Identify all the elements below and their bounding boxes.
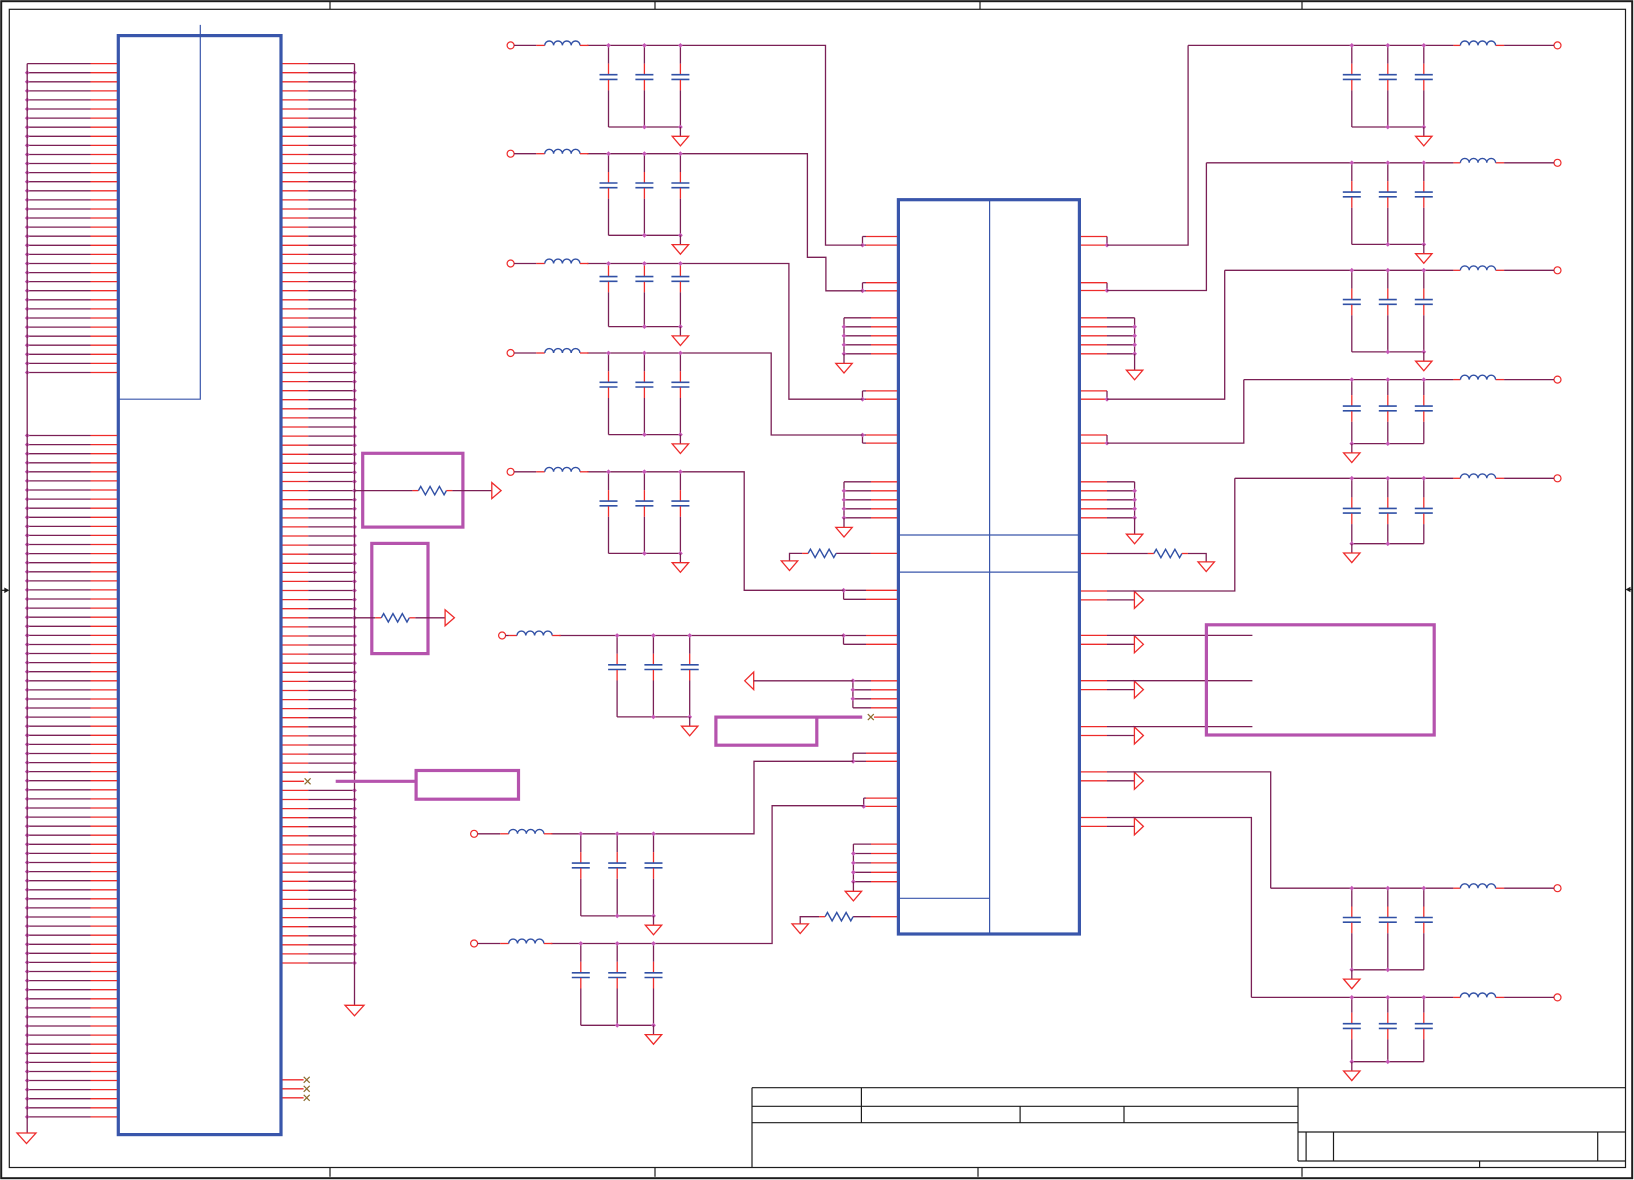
inductor T1 bbox=[514, 41, 588, 45]
junction dots C10 bottom bbox=[1385, 242, 1426, 247]
IC U1 right pin group G2R bbox=[1081, 482, 1137, 520]
wire C2 bottom bus bbox=[609, 234, 681, 236]
capacitor C9b bbox=[1379, 45, 1397, 127]
capacitor C2a bbox=[600, 154, 618, 236]
net X3 stub (thick pink) bbox=[336, 780, 416, 783]
junction dots C6 top bbox=[615, 633, 692, 638]
wire C10 bottom bus bbox=[1352, 243, 1424, 245]
ground C13 bbox=[1344, 544, 1360, 563]
ground C15 bbox=[1344, 1062, 1360, 1081]
title block left section bbox=[752, 1088, 1626, 1168]
junction dots C5 bottom bbox=[642, 551, 683, 556]
ground at R3 bbox=[781, 561, 797, 571]
border zone tick top 2 bbox=[654, 1, 656, 9]
net A5 upper to R6 row bbox=[1107, 772, 1271, 888]
border middle mark left bbox=[1, 588, 9, 594]
capacitor C5c bbox=[671, 472, 689, 554]
net L8 row bbox=[551, 806, 864, 944]
IC U1 right pin pair P1R bbox=[1081, 237, 1109, 248]
connector J1 left pins group B wires bbox=[27, 436, 90, 1117]
wire C11 bottom bus bbox=[1352, 351, 1424, 353]
inductor T3 bbox=[514, 259, 588, 263]
ground C6 bbox=[682, 717, 698, 736]
wire C15 bottom bus bbox=[1352, 1061, 1424, 1063]
signal arrow out of X1 bbox=[492, 483, 501, 499]
capacitor C13a bbox=[1343, 478, 1361, 543]
capacitor C14a bbox=[1343, 888, 1361, 970]
capacitor C13c bbox=[1415, 478, 1433, 543]
wire C7 bottom bus bbox=[581, 915, 654, 917]
net IC P5R to R4 bbox=[1107, 380, 1244, 444]
IC U1 left pin pair P8 bbox=[851, 753, 897, 764]
IC U1 right pin pair P4R bbox=[1081, 391, 1109, 402]
capacitor C1a bbox=[600, 45, 618, 127]
wire X1 resistor to arrow bbox=[446, 490, 491, 492]
junction dots right bus bbox=[352, 70, 357, 965]
capacitor C6c bbox=[681, 636, 699, 717]
capacitor C10a bbox=[1343, 163, 1361, 245]
IC U1 right pin group G1R bbox=[1081, 318, 1137, 356]
capacitor C10b bbox=[1379, 163, 1397, 245]
signal arrow A3 bbox=[1134, 681, 1143, 698]
wire X2 resistor to arrow bbox=[409, 617, 445, 619]
capacitor C3a bbox=[600, 264, 618, 327]
IC U1 right arrow pair A4 bbox=[1081, 727, 1134, 736]
ground at R4 bbox=[1198, 562, 1214, 572]
ground IC left group G4 bbox=[845, 882, 861, 901]
capacitor C2c bbox=[671, 154, 689, 236]
capacitor C7a bbox=[572, 834, 590, 916]
component box X5 (pink) bbox=[1206, 625, 1434, 735]
ground C9 bbox=[1416, 127, 1432, 146]
ground left bus bbox=[17, 1133, 36, 1144]
inductor TR3 bbox=[1453, 266, 1554, 270]
junction dots C15 bottom bbox=[1349, 1059, 1390, 1064]
signal arrow A6 bbox=[1134, 818, 1143, 835]
IC U1 left pin pair P4 bbox=[860, 391, 897, 402]
title block right section bbox=[1298, 1088, 1626, 1168]
ground C10 bbox=[1416, 244, 1432, 263]
capacitor C8a bbox=[572, 944, 590, 1026]
capacitor C14b bbox=[1379, 888, 1397, 970]
junction dots C9 bottom bbox=[1385, 125, 1426, 130]
capacitor C6b bbox=[644, 636, 662, 717]
inductor T4 bbox=[514, 349, 588, 353]
junction dots C4 bottom bbox=[642, 432, 683, 437]
signal arrow A2 bbox=[1134, 636, 1143, 653]
component box X3 (pink) bbox=[416, 771, 518, 800]
net R6 row bbox=[1271, 887, 1454, 889]
border zone tick bottom 3 bbox=[977, 1168, 979, 1177]
ground IC left group G1 bbox=[836, 354, 852, 373]
junction dots C14 top bbox=[1349, 886, 1426, 891]
junction dots left bus group A bbox=[25, 70, 30, 375]
wire resistor R4 to ground bbox=[1182, 554, 1206, 562]
capacitor C12a bbox=[1343, 380, 1361, 444]
junction dots left bus group B bbox=[25, 433, 30, 1119]
ground C1 bbox=[672, 127, 688, 146]
ground C12 bbox=[1344, 444, 1360, 463]
wire right ground bus bbox=[354, 64, 356, 1006]
connector J1 internal partition bbox=[118, 25, 200, 399]
junction dots C8 top bbox=[578, 941, 656, 946]
no-connect X on J1 right row bbox=[305, 778, 311, 784]
capacitor C13b bbox=[1379, 478, 1397, 543]
terminal TR2 bbox=[1554, 159, 1561, 166]
ground C7 bbox=[645, 916, 661, 935]
terminal T7 bbox=[471, 830, 478, 837]
terminal T8 bbox=[471, 940, 478, 947]
capacitor C3b bbox=[635, 264, 653, 327]
IC U1 left pin group G3 bbox=[851, 678, 898, 707]
junction dots C12 bottom bbox=[1349, 441, 1390, 446]
terminal TR5 bbox=[1554, 475, 1561, 482]
net R7 row bbox=[1251, 996, 1453, 998]
wire C12 bottom bus bbox=[1352, 443, 1424, 445]
junction dots C4 top bbox=[606, 351, 683, 356]
capacitor C7b bbox=[608, 834, 626, 916]
capacitor C15b bbox=[1379, 997, 1397, 1061]
junction dots C3 top bbox=[606, 261, 683, 266]
capacitor C10c bbox=[1415, 163, 1433, 245]
wire left ground bus bbox=[26, 64, 28, 1133]
IC U1 left pin pair P9 bbox=[861, 798, 897, 809]
terminal T4 bbox=[507, 350, 514, 357]
net L1 row bbox=[587, 45, 863, 245]
ground IC right group G1R bbox=[1126, 354, 1142, 380]
capacitor C5b bbox=[635, 472, 653, 554]
net L6 row bbox=[559, 635, 843, 637]
net L5 row bbox=[587, 472, 844, 591]
capacitor C6a bbox=[608, 636, 626, 717]
connector J1 right pins red stubs bbox=[283, 64, 309, 963]
capacitor C4c bbox=[671, 353, 689, 435]
wire C1 bottom bus bbox=[609, 126, 681, 128]
wire G3 to left arrow bbox=[754, 680, 853, 682]
ground IC left group G2 bbox=[836, 518, 852, 537]
terminal TR1 bbox=[1554, 42, 1561, 49]
inductor TR6 bbox=[1453, 884, 1554, 888]
net A6 upper to R7 row bbox=[1107, 818, 1251, 998]
net R3 row bbox=[1225, 269, 1454, 271]
IC U1 left pin group G2 bbox=[842, 482, 897, 520]
IC U1 internal divider h2 bbox=[898, 571, 1079, 573]
junction dots C2 top bbox=[606, 151, 683, 156]
junction dots C12 top bbox=[1349, 377, 1426, 382]
wire IC left pin to resistor R5 bbox=[853, 916, 897, 918]
junction dots C7 top bbox=[578, 831, 656, 836]
IC U1 left pin group G1 bbox=[842, 318, 897, 356]
IC U1 internal divider h1 bbox=[898, 534, 1079, 536]
ground C5 bbox=[672, 553, 688, 572]
IC U1 left pin pair P2 bbox=[860, 283, 897, 294]
junction dots C15 top bbox=[1349, 995, 1426, 1000]
connector J1 body bbox=[118, 36, 281, 1135]
ground IC right group G2R bbox=[1126, 518, 1142, 544]
wire J1 row to X2 resistor bbox=[355, 617, 382, 619]
junction dots C11 top bbox=[1349, 268, 1426, 273]
IC U1 left pin pair P6 bbox=[841, 588, 897, 599]
terminal TR4 bbox=[1554, 376, 1561, 383]
capacitor C5a bbox=[600, 472, 618, 554]
terminal T2 bbox=[507, 150, 514, 157]
ground C14 bbox=[1344, 970, 1360, 989]
IC U1 right arrow pair A5 bbox=[1081, 772, 1134, 781]
resistor R3 bbox=[808, 549, 836, 557]
wire C6 bottom bus bbox=[617, 716, 690, 718]
border zone tick top 3 bbox=[979, 1, 981, 9]
wire C5 bottom bus bbox=[609, 552, 681, 554]
capacitor C2b bbox=[635, 154, 653, 236]
IC U1 right arrow pair A2 bbox=[1081, 635, 1134, 644]
signal arrow A4 bbox=[1134, 727, 1143, 744]
net IC P4R to R3 bbox=[1107, 270, 1225, 399]
capacitor C1b bbox=[635, 45, 653, 127]
net R2 row bbox=[1206, 162, 1453, 164]
junction dots C13 top bbox=[1349, 476, 1426, 481]
capacitor C15c bbox=[1415, 997, 1433, 1061]
junction dots C8 bottom bbox=[615, 1023, 656, 1028]
junction dots C1 top bbox=[606, 43, 683, 48]
signal arrow A1 bbox=[1134, 591, 1143, 608]
IC U1 right arrow pair A1 bbox=[1081, 591, 1134, 600]
junction dots C14 bottom bbox=[1349, 967, 1390, 972]
wire resistor R5 to ground bbox=[800, 917, 825, 924]
IC U1 left pin group G4 bbox=[851, 844, 897, 884]
ground C2 bbox=[672, 235, 688, 254]
junction dots C13 bottom bbox=[1349, 541, 1390, 546]
ground C3 bbox=[672, 327, 688, 346]
ground C8 bbox=[645, 1025, 661, 1044]
signal arrow left of G3 bbox=[745, 672, 754, 690]
ground at R5 bbox=[792, 924, 808, 934]
net A4 upper into box X5 bbox=[1107, 726, 1252, 728]
terminal T5 bbox=[507, 468, 514, 475]
IC U1 internal divider h3 bbox=[898, 897, 989, 899]
terminal TR6 bbox=[1554, 885, 1561, 892]
junction dots C2 bottom bbox=[642, 233, 683, 238]
IC U1 body bbox=[898, 200, 1079, 934]
capacitor C4a bbox=[600, 353, 618, 435]
junction dots C1 bottom bbox=[642, 125, 683, 130]
capacitor C12b bbox=[1379, 380, 1397, 444]
junction dots C11 bottom bbox=[1385, 350, 1426, 355]
net R1 row bbox=[1188, 44, 1453, 46]
IC U1 right arrow pair A3 bbox=[1081, 681, 1134, 690]
capacitor C14c bbox=[1415, 888, 1433, 970]
junction dots C6 bottom bbox=[651, 715, 692, 720]
net L3 row bbox=[587, 264, 863, 400]
net R5 row bbox=[1235, 477, 1454, 479]
component box X4 (pink) bbox=[716, 717, 817, 745]
wire C4 bottom bus bbox=[609, 434, 681, 436]
capacitor C11a bbox=[1343, 270, 1361, 352]
capacitor C8c bbox=[645, 944, 663, 1026]
wire IC right pin to resistor R4 bbox=[1081, 553, 1154, 555]
resistor R1 in X1 bbox=[418, 486, 446, 494]
no-connect pins J1 bottom right bbox=[283, 1077, 310, 1101]
inductor T2 bbox=[514, 149, 588, 153]
inductor T6 bbox=[506, 631, 561, 635]
signal arrow out of X2 bbox=[445, 610, 454, 626]
capacitor C1c bbox=[671, 45, 689, 127]
IC U1 left pin pair P1 bbox=[860, 237, 897, 248]
net L2 row bbox=[587, 154, 863, 291]
junction dots C5 top bbox=[606, 469, 683, 474]
inductor T7 bbox=[478, 829, 553, 833]
inductor T8 bbox=[478, 939, 553, 943]
capacitor C9a bbox=[1343, 45, 1361, 127]
resistor R5 bbox=[825, 913, 853, 921]
net A3 upper into box X5 bbox=[1107, 680, 1252, 682]
terminal TR3 bbox=[1554, 267, 1561, 274]
ground C11 bbox=[1416, 352, 1432, 371]
ground right bus bbox=[345, 1005, 364, 1016]
resistor R2 in X2 bbox=[381, 614, 409, 622]
wire C9 bottom bus bbox=[1352, 126, 1424, 128]
wire IC left pin to resistor R3 bbox=[836, 552, 897, 554]
component box X1 (pink) bbox=[363, 453, 463, 527]
wire J1 row to X1 resistor bbox=[355, 490, 419, 492]
junction dots C3 bottom bbox=[642, 324, 683, 329]
wire C13 bottom bus bbox=[1352, 543, 1424, 545]
ground C4 bbox=[672, 435, 688, 454]
wire C8 bottom bus bbox=[581, 1024, 654, 1026]
capacitor C11b bbox=[1379, 270, 1397, 352]
inductor T5 bbox=[514, 467, 588, 471]
inductor TR7 bbox=[1453, 993, 1554, 997]
capacitor C8b bbox=[608, 944, 626, 1026]
wire resistor R3 to ground bbox=[790, 553, 809, 561]
IC U1 left pin pair P7 bbox=[841, 633, 897, 644]
net R4 row bbox=[1244, 379, 1454, 381]
connector J1 left pins group A wires bbox=[27, 64, 90, 373]
wire C14 bottom bus bbox=[1352, 969, 1424, 971]
signal arrow A5 bbox=[1134, 772, 1143, 789]
terminal T3 bbox=[507, 260, 514, 267]
border zone tick top 4 bbox=[1301, 1, 1303, 9]
IC U1 internal divider vertical bbox=[989, 200, 991, 934]
IC U1 left pin pair P5 bbox=[860, 433, 897, 444]
net IC P2R to R2 bbox=[1107, 163, 1206, 291]
inductor TR1 bbox=[1453, 41, 1554, 45]
IC U1 right pin pair P2R bbox=[1081, 283, 1109, 293]
border middle mark right bbox=[1626, 587, 1633, 593]
border zone tick bottom 4 bbox=[1301, 1168, 1303, 1177]
terminal TR7 bbox=[1554, 994, 1561, 1001]
terminal T1 bbox=[507, 42, 514, 49]
junction dots C9 top bbox=[1349, 43, 1426, 48]
junction dots C10 top bbox=[1349, 160, 1426, 165]
inductor TR4 bbox=[1453, 375, 1554, 379]
capacitor C12c bbox=[1415, 380, 1433, 444]
net L4 row bbox=[587, 353, 863, 435]
net IC P1R to R1 bbox=[1107, 45, 1188, 245]
junction dots C7 bottom bbox=[615, 914, 656, 919]
capacitor C15a bbox=[1343, 997, 1361, 1061]
net A1 upper to R5 row bbox=[1107, 478, 1235, 591]
connector J1 right pins wires bbox=[308, 64, 354, 963]
no-connect X at IC left pin bbox=[868, 714, 897, 720]
connector J1 left pins group A red stubs bbox=[91, 64, 118, 373]
border zone tick top 1 bbox=[329, 1, 331, 9]
capacitor C3c bbox=[671, 264, 689, 327]
border zone tick bottom 1 bbox=[329, 1168, 331, 1177]
border zone tick bottom 2 bbox=[654, 1168, 656, 1177]
connector J1 left pins group B red stubs bbox=[91, 436, 118, 1117]
capacitor C11c bbox=[1415, 270, 1433, 352]
inductor TR2 bbox=[1453, 158, 1554, 162]
capacitor C9c bbox=[1415, 45, 1433, 127]
wire C3 bottom bus bbox=[609, 326, 681, 328]
net A2 upper into box X5 bbox=[1107, 634, 1252, 636]
inductor TR5 bbox=[1453, 474, 1554, 478]
capacitor C4b bbox=[635, 353, 653, 435]
terminal T6 bbox=[499, 632, 506, 639]
net X4 stub (thick pink) bbox=[817, 715, 862, 718]
net L7 row bbox=[551, 761, 853, 834]
component box X2 (pink) bbox=[372, 543, 428, 653]
IC U1 right pin pair P5R bbox=[1081, 435, 1109, 446]
IC U1 right arrow pair A6 bbox=[1081, 818, 1134, 827]
resistor R4 bbox=[1154, 549, 1182, 557]
capacitor C7c bbox=[645, 834, 663, 916]
